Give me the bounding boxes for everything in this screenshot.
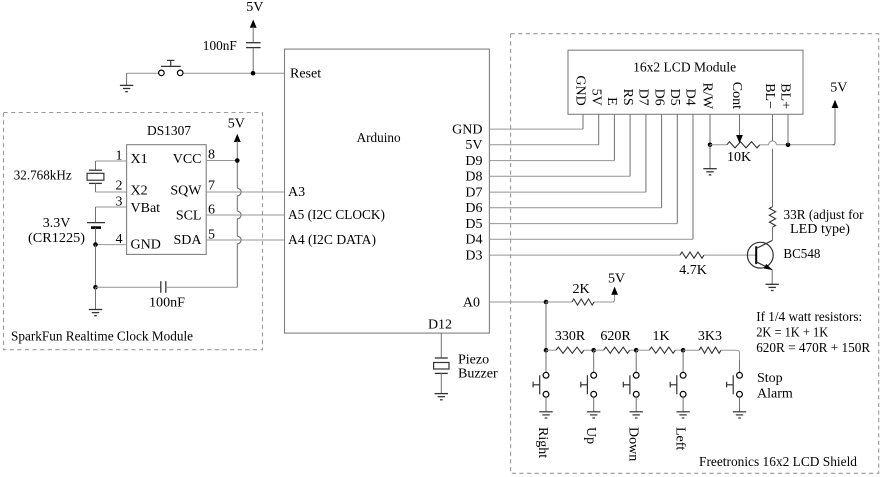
svg-text:1K: 1K [652, 329, 669, 344]
svg-text:100nF: 100nF [149, 295, 185, 310]
IC U1 DS1307 box [127, 145, 207, 255]
svg-text:2K: 2K [572, 282, 589, 297]
label Left [672, 427, 687, 450]
crystal Y1 32.768kHz [87, 170, 104, 183]
Arduino box [285, 49, 490, 333]
svg-text:D12: D12 [428, 318, 452, 333]
svg-text:16x2 LCD Module: 16x2 LCD Module [633, 61, 736, 76]
svg-text:10K: 10K [727, 150, 751, 165]
wire A0 down to ladder [545, 302, 547, 350]
pin label D6 (LCD) [651, 89, 666, 106]
svg-text:330R: 330R [555, 329, 586, 344]
svg-text:Freetronics 16x2 LCD Shield: Freetronics 16x2 LCD Shield [699, 455, 857, 470]
ground (Q1) [766, 284, 779, 290]
svg-text:A0: A0 [463, 295, 480, 310]
label 32.768kHz [14, 169, 72, 184]
pin label VBat [131, 201, 161, 216]
wire VBat [96, 207, 127, 223]
svg-text:Buzzer: Buzzer [458, 367, 498, 382]
pin label D5 (Arduino) [465, 217, 482, 232]
wire SQW to A3 [206, 191, 284, 193]
transistor Q1 BC548 [747, 241, 773, 271]
svg-text:BL−: BL− [762, 83, 777, 109]
svg-text:D3: D3 [465, 249, 482, 264]
ground (Up button) [587, 412, 600, 418]
ground (reset button) [120, 73, 133, 91]
ground (Down button) [630, 412, 643, 418]
junction reset node [251, 71, 256, 76]
label Piezo Buzzer [458, 353, 498, 382]
pushbutton SW reset [159, 60, 183, 75]
resistor R2 330R [546, 347, 594, 353]
label BC548 [783, 247, 820, 262]
battery BT1 3.3V [87, 223, 105, 228]
pin label D12 [428, 318, 452, 333]
svg-text:32.768kHz: 32.768kHz [14, 169, 72, 184]
SparkFun RTC module dashed box [4, 113, 263, 350]
junction gnd node [93, 242, 98, 247]
piezo buzzer LS1 [434, 358, 449, 373]
pin label A0 [463, 295, 480, 310]
pin number 3 [116, 194, 123, 209]
resistor R4 1K [636, 347, 683, 353]
power 5V (RTC) [228, 117, 245, 161]
pin label 5V (Arduino) [465, 138, 482, 153]
wire D6 to LCD [489, 114, 661, 208]
pin label BL+ (LCD) [778, 83, 793, 109]
pin label 5V (LCD) [588, 89, 603, 106]
pin label D4 (Arduino) [465, 233, 482, 248]
svg-text:D9: D9 [465, 154, 482, 169]
svg-text:33R (adjust for: 33R (adjust for [784, 208, 864, 223]
pin label D8 (Arduino) [465, 170, 482, 185]
label 2K [572, 282, 589, 297]
wire to C2 [96, 286, 161, 288]
wire GND pin 4 [96, 244, 127, 246]
pin label RS (LCD) [620, 89, 635, 106]
resistor R7 3K3 [683, 347, 739, 360]
wire piezo to gnd [440, 373, 442, 393]
svg-text:Cont: Cont [729, 82, 744, 109]
svg-text:Alarm: Alarm [757, 386, 793, 401]
svg-text:D6: D6 [465, 201, 482, 216]
svg-text:Right: Right [535, 427, 550, 458]
svg-text:5V: 5V [465, 138, 482, 153]
svg-text:D4: D4 [465, 233, 482, 248]
label 3K3 [698, 329, 722, 344]
pushbutton SW Right [533, 350, 549, 412]
pin label BL- (LCD) [762, 83, 777, 109]
wire 5V vertical with hops [237, 161, 241, 288]
svg-text:Arduino: Arduino [357, 131, 401, 146]
svg-text:2K = 1K + 1K: 2K = 1K + 1K [756, 325, 828, 340]
svg-text:X1: X1 [131, 152, 148, 167]
svg-text:2: 2 [116, 178, 123, 193]
svg-text:5V: 5V [830, 81, 847, 96]
power 5V (backlight) [830, 81, 847, 145]
pin label SDA [173, 233, 202, 248]
svg-text:Stop: Stop [757, 371, 783, 386]
svg-text:A5 (I2C CLOCK): A5 (I2C CLOCK) [288, 208, 385, 223]
wire D7 to LCD [489, 114, 646, 192]
pin number 1 [116, 148, 123, 163]
svg-text:620R: 620R [600, 329, 631, 344]
wire gnd rail down [95, 245, 97, 288]
pin label X1 [131, 152, 148, 167]
svg-text:5V: 5V [228, 117, 245, 132]
svg-text:D7: D7 [636, 89, 651, 106]
wire X1 [96, 161, 127, 170]
svg-text:5V: 5V [588, 89, 603, 106]
wire D5 to LCD [489, 114, 677, 223]
svg-text:SparkFun Realtime Clock Module: SparkFun Realtime Clock Module [11, 330, 193, 345]
pin label A5 (I2C CLOCK) [288, 208, 385, 223]
pin label GND (Arduino) [452, 123, 482, 138]
label 33R [784, 208, 864, 237]
svg-text:If 1/4 watt resistors:: If 1/4 watt resistors: [756, 310, 862, 325]
pin label Cont (LCD) [729, 82, 744, 109]
junction ladder (Right) [544, 348, 549, 353]
pushbutton SW Left [670, 350, 686, 412]
pin number 7 [208, 178, 215, 193]
wire R6 to base [704, 254, 756, 256]
label Stop Alarm [757, 371, 793, 402]
wire SDA to A4 [206, 239, 284, 241]
note resistor equivalents [756, 310, 871, 356]
pin label D7 (LCD) [636, 89, 651, 106]
svg-text:3.3V: 3.3V [43, 216, 71, 231]
junction ladder (Left) [681, 348, 686, 353]
pin label E (LCD) [604, 97, 619, 106]
svg-text:4.7K: 4.7K [679, 263, 707, 278]
wire emitter to gnd [771, 270, 773, 285]
pin label D7 (Arduino) [465, 186, 482, 201]
label 1K [652, 329, 669, 344]
pin number 8 [208, 148, 215, 163]
label Arduino [357, 131, 401, 146]
label DS1307 [147, 124, 191, 139]
svg-text:GND: GND [131, 238, 161, 253]
wire VCC pin 8 [206, 160, 237, 162]
capacitor C1 100nF (reset) [246, 43, 261, 73]
pin label GND (U1) [131, 238, 161, 253]
svg-text:X2: X2 [131, 184, 148, 199]
svg-text:3K3: 3K3 [698, 329, 722, 344]
svg-text:Down: Down [625, 427, 640, 461]
resistor R1 2K [546, 293, 615, 305]
svg-text:Piezo: Piezo [458, 353, 489, 368]
power 5V (ladder) [608, 272, 625, 295]
svg-text:5V: 5V [608, 272, 625, 287]
label 620R [600, 329, 631, 344]
pin label SQW [170, 184, 202, 199]
pot wiper arrow (Cont) [736, 114, 743, 143]
junction ladder (Down) [634, 348, 639, 353]
Freetronics shield dashed box [511, 34, 879, 474]
svg-text:D8: D8 [465, 170, 482, 185]
svg-text:VCC: VCC [173, 152, 202, 167]
ground (Right button) [539, 412, 552, 418]
pushbutton SW Down [623, 350, 639, 412]
wire BL+ pin [787, 114, 789, 145]
svg-text:E: E [604, 97, 619, 106]
wire D12 to piezo [440, 333, 442, 358]
svg-text:A3: A3 [288, 185, 305, 200]
svg-text:RS: RS [620, 89, 635, 106]
wire D3 to R6 [489, 254, 680, 256]
ground (piezo) [435, 394, 448, 400]
svg-text:D6: D6 [651, 89, 666, 106]
LCD module box [568, 50, 803, 114]
junction BL+ [786, 143, 791, 148]
wire A0 [489, 301, 546, 303]
pin label VCC [173, 152, 202, 167]
svg-text:VBat: VBat [131, 201, 161, 216]
ground (Left button) [676, 412, 689, 418]
svg-text:D7: D7 [465, 186, 482, 201]
pin label GND (LCD) [573, 75, 588, 105]
wire battery to gnd node [95, 228, 97, 245]
label 4.7K [679, 263, 707, 278]
resistor R3 620R [594, 347, 637, 353]
svg-text:A4 (I2C DATA): A4 (I2C DATA) [288, 233, 376, 248]
wire X2 [96, 183, 127, 192]
svg-text:Up: Up [583, 427, 598, 444]
pin label A4 (I2C DATA) [288, 233, 376, 248]
svg-text:100nF: 100nF [203, 39, 237, 54]
pin label SCL [176, 208, 202, 223]
svg-text:SCL: SCL [176, 208, 202, 223]
wire BL- down [772, 114, 774, 206]
label Down [625, 427, 640, 461]
label Right [535, 427, 550, 458]
svg-text:BC548: BC548 [783, 247, 820, 262]
label Up [583, 427, 598, 444]
label 3.3V (CR1225) [28, 216, 85, 246]
junction A0 [544, 300, 549, 305]
junction ladder (Up) [591, 348, 596, 353]
pin number 5 [208, 227, 215, 242]
svg-text:620R = 470R + 150R: 620R = 470R + 150R [756, 341, 871, 356]
pin number 6 [208, 202, 215, 217]
svg-text:D4: D4 [683, 89, 698, 106]
label SparkFun Realtime Clock Module [11, 330, 193, 345]
svg-text:D5: D5 [667, 89, 682, 106]
pin label D6 (Arduino) [465, 201, 482, 216]
resistor R6 4.7K [680, 252, 704, 258]
pin label A3 [288, 185, 305, 200]
label 100nF [203, 39, 237, 54]
wire D8 to LCD [489, 114, 630, 176]
wire SCL to A5 [206, 214, 284, 216]
pin label R/W (LCD) [700, 83, 715, 110]
ground (RTC) [89, 287, 102, 315]
svg-text:BL+: BL+ [778, 83, 793, 109]
power 5V (reset pullup) [246, 0, 263, 42]
svg-text:SQW: SQW [170, 184, 202, 199]
wire 33R to collector [772, 227, 774, 240]
svg-text:Reset: Reset [290, 67, 321, 82]
pin label Reset [290, 67, 321, 82]
pin number 4 [116, 232, 123, 247]
wire D9 to LCD [489, 114, 614, 160]
svg-text:R/W: R/W [700, 83, 715, 110]
pushbutton SW Stop Alarm [727, 360, 743, 412]
pin label D5 (LCD) [667, 89, 682, 106]
pin label D9 (Arduino) [465, 154, 482, 169]
pin label X2 [131, 184, 148, 199]
label 16x2 LCD Module [633, 61, 736, 76]
wire to BL+ junction [776, 144, 835, 146]
pin label D3 (Arduino) [465, 249, 482, 264]
svg-text:7: 7 [208, 178, 215, 193]
wire 5V to LCD [489, 114, 598, 145]
junction VCC 5V [235, 158, 240, 163]
label 10K [727, 150, 751, 165]
svg-text:D5: D5 [465, 217, 482, 232]
label Freetronics 16x2 LCD Shield [699, 455, 857, 470]
pushbutton SW Up [581, 350, 597, 412]
pin number 2 [116, 178, 123, 193]
junction R/W [708, 143, 713, 148]
capacitor C2 100nF (RTC) [161, 281, 166, 293]
potentiometer VR1 10K [710, 142, 769, 148]
svg-text:Left: Left [672, 427, 687, 450]
svg-text:GND: GND [452, 123, 482, 138]
ground (R/W) [703, 145, 716, 175]
pin label D4 (LCD) [683, 89, 698, 106]
junction cap node [93, 285, 98, 290]
svg-text:(CR1225): (CR1225) [28, 231, 85, 246]
svg-text:GND: GND [573, 75, 588, 105]
resistor R5 33R [769, 207, 775, 228]
label 100nF (RTC) [149, 295, 185, 310]
wire GND to LCD [489, 114, 583, 129]
wire C2 to 5V rail [166, 286, 238, 288]
wire hop over BL- [769, 141, 777, 145]
svg-text:5V: 5V [246, 0, 263, 15]
wire D4 to LCD [489, 114, 693, 239]
wire R/W down [709, 114, 711, 145]
svg-text:DS1307: DS1307 [147, 124, 191, 139]
wire reset rail [127, 72, 285, 74]
label 330R [555, 329, 586, 344]
svg-text:LED type): LED type) [790, 222, 850, 237]
ground (Stop Alarm button) [733, 412, 746, 418]
svg-text:SDA: SDA [173, 233, 202, 248]
